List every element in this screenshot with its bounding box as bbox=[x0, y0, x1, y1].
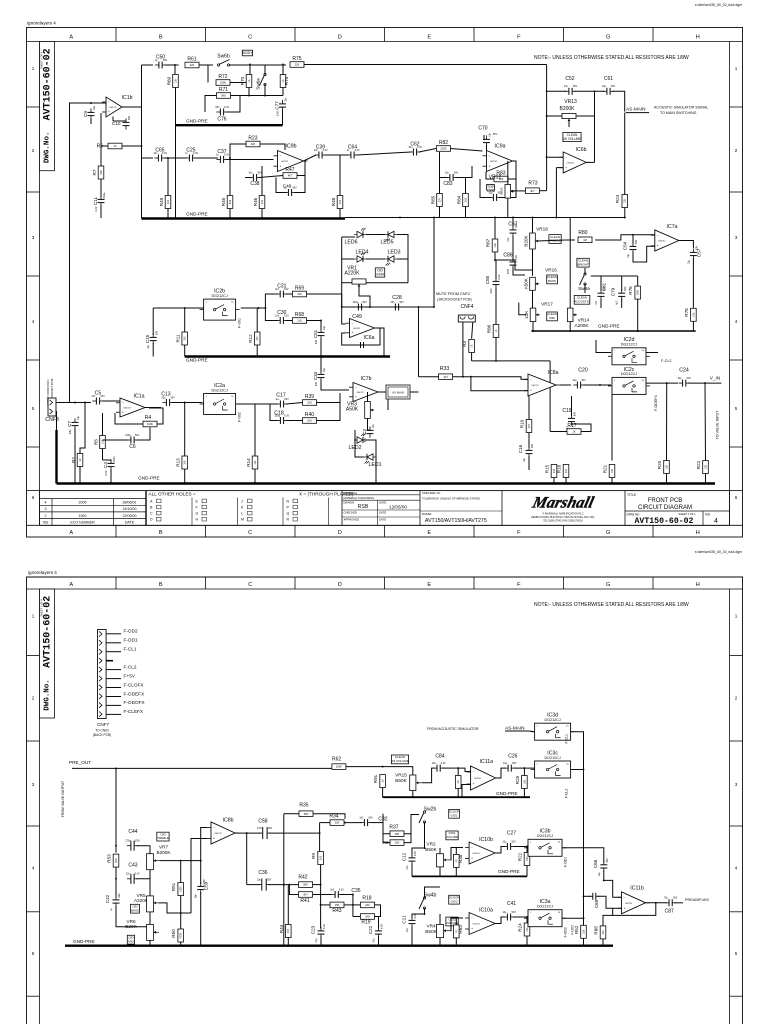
wire C4 bot bbox=[110, 469, 112, 484]
potentiometer VR2 bbox=[437, 854, 451, 867]
diode LED4 bbox=[354, 253, 366, 263]
svg-text:C13: C13 bbox=[161, 392, 170, 398]
wire IC10b out bbox=[495, 847, 505, 854]
wire VR4 bot bbox=[439, 938, 441, 946]
svg-text:2005: 2005 bbox=[79, 501, 87, 505]
svg-text:Sw4b: Sw4b bbox=[424, 893, 437, 899]
wire C36 left bbox=[247, 884, 260, 886]
svg-text:3: 3 bbox=[32, 235, 35, 240]
capacitor C62 bbox=[408, 141, 422, 155]
svg-text:TO MAIN SWITCHING: TO MAIN SWITCHING bbox=[660, 111, 697, 115]
svg-text:R7: R7 bbox=[92, 169, 97, 175]
wire R91 down bbox=[382, 788, 384, 798]
wire IC11a plus wire bbox=[462, 785, 471, 798]
svg-text:R15: R15 bbox=[545, 464, 550, 473]
svg-text:IC6a: IC6a bbox=[364, 335, 375, 341]
svg-text:C49: C49 bbox=[352, 314, 362, 320]
connector CNF4 bbox=[458, 315, 475, 322]
capacitor C37 bbox=[216, 149, 229, 163]
analog switch IC3b bbox=[524, 829, 566, 857]
op-amp IC6b bbox=[559, 152, 590, 173]
svg-text:DWG.No.: DWG.No. bbox=[44, 679, 52, 711]
wire VR2 top bbox=[439, 848, 441, 854]
svg-text:D: D bbox=[338, 530, 342, 536]
svg-text:68n: 68n bbox=[195, 893, 198, 898]
wire R72 right bbox=[230, 82, 250, 84]
svg-text:10K: 10K bbox=[526, 856, 529, 861]
capacitor C26 bbox=[503, 762, 517, 772]
resistor R11 bbox=[176, 332, 188, 345]
svg-text:1K: 1K bbox=[248, 79, 251, 82]
svg-text:4: 4 bbox=[45, 501, 47, 505]
ground bus GND-PRE p2 row3 bbox=[383, 796, 530, 798]
svg-text:R2: R2 bbox=[71, 457, 76, 463]
resistor R22p2 bbox=[524, 853, 530, 866]
svg-text:DG212CJ: DG212CJ bbox=[621, 372, 637, 376]
wire R48 bot bbox=[339, 209, 341, 219]
wire Sw6a bot bbox=[264, 85, 266, 96]
potentiometer VR1 bbox=[352, 279, 366, 288]
capacitor C15 bbox=[145, 330, 158, 349]
svg-text:PREAMP-MIX: PREAMP-MIX bbox=[685, 898, 710, 902]
svg-text:LED6: LED6 bbox=[345, 240, 358, 246]
svg-text:5K6: 5K6 bbox=[100, 170, 103, 175]
diode LED1 bbox=[364, 454, 376, 464]
capacitor C67 bbox=[507, 223, 518, 242]
page2 outer frame bbox=[27, 577, 743, 1024]
svg-text:C6: C6 bbox=[129, 444, 136, 450]
wire VR6 bot bbox=[149, 940, 151, 945]
svg-text:63V: 63V bbox=[624, 286, 627, 291]
svg-text:10µ: 10µ bbox=[257, 878, 262, 881]
svg-text:AS-MAIN: AS-MAIN bbox=[626, 106, 646, 111]
svg-text:3n3: 3n3 bbox=[359, 816, 364, 819]
svg-text:LED3: LED3 bbox=[388, 250, 401, 256]
junction C69 tap bbox=[583, 895, 585, 897]
junction R43 left bbox=[320, 904, 322, 906]
wire IC11b out bbox=[646, 902, 667, 904]
wire CNF3 to IC1b input bbox=[70, 103, 92, 403]
svg-text:2: 2 bbox=[32, 148, 35, 153]
resistor R23 bbox=[246, 136, 260, 147]
svg-text:10n: 10n bbox=[314, 149, 319, 152]
wire C36 right bbox=[268, 884, 299, 886]
wire C15 top bbox=[152, 308, 154, 335]
wire R68 right bbox=[307, 320, 322, 322]
svg-text:−: − bbox=[352, 321, 354, 325]
wire R71 to nodes bbox=[231, 95, 284, 97]
wire Sw6a links bbox=[264, 65, 266, 75]
resistor R21 bbox=[609, 465, 615, 478]
svg-text:VOLUME: VOLUME bbox=[446, 835, 459, 839]
junction R61 left bbox=[174, 64, 176, 66]
svg-text:DG212CJ: DG212CJ bbox=[537, 834, 553, 838]
svg-text:10n: 10n bbox=[275, 314, 280, 317]
capacitor C30 bbox=[275, 310, 289, 324]
svg-text:DATE: DATE bbox=[379, 511, 386, 515]
ground bus GND-PRE mid bbox=[185, 355, 390, 357]
svg-text:E: E bbox=[427, 582, 431, 588]
svg-text:C36: C36 bbox=[258, 870, 267, 876]
wire C24 to VIN bbox=[688, 382, 721, 384]
switch Sw4b bbox=[419, 897, 426, 909]
svg-text:TEL:01908 375411 FAX:01908 37: TEL:01908 375411 FAX:01908 376118 bbox=[543, 519, 583, 522]
wire C12 branch bbox=[412, 848, 425, 856]
svg-text:D: D bbox=[338, 582, 342, 588]
svg-text:10µ: 10µ bbox=[503, 762, 508, 765]
svg-text:LM4742: LM4742 bbox=[472, 924, 480, 926]
svg-text:3: 3 bbox=[735, 782, 738, 787]
svg-text:IC1a: IC1a bbox=[134, 394, 145, 400]
wire R7 column bbox=[100, 146, 102, 166]
svg-text:22K: 22K bbox=[295, 63, 300, 67]
svg-text:R62: R62 bbox=[332, 757, 341, 763]
capacitor C33 bbox=[313, 367, 326, 386]
wire CNF4 pin1 bbox=[462, 322, 464, 377]
wire IC3b out bbox=[562, 847, 584, 849]
svg-text:DATE: DATE bbox=[379, 518, 386, 522]
junction x434 bot bbox=[433, 306, 435, 308]
wire fb vertical x283 bbox=[283, 814, 285, 946]
svg-text:27K: 27K bbox=[528, 423, 531, 428]
junction R71 node2 bbox=[264, 95, 266, 97]
svg-text:1M: 1M bbox=[382, 779, 385, 782]
svg-text:63V: 63V bbox=[284, 288, 289, 291]
wire IC3c out bbox=[571, 769, 584, 771]
wire R72 left bbox=[207, 65, 209, 83]
svg-text:12K: 12K bbox=[335, 821, 340, 825]
wire trunk down bbox=[546, 65, 548, 191]
potentiometer VR12 bbox=[505, 185, 515, 199]
op-amp IC8b bbox=[207, 822, 239, 844]
ground bus GND-PRE page2 main bbox=[65, 945, 613, 947]
svg-text:1K5: 1K5 bbox=[307, 419, 312, 423]
wire R7 to C11 bbox=[100, 179, 102, 197]
junction IC11b fb bbox=[655, 902, 657, 904]
resistor R10 bbox=[526, 420, 532, 433]
svg-text:R82: R82 bbox=[439, 140, 448, 146]
wire x116 R53 bbox=[115, 846, 117, 853]
capacitor C42 bbox=[110, 893, 121, 911]
svg-text:G: G bbox=[606, 582, 610, 588]
svg-text:F: F bbox=[517, 530, 521, 536]
svg-text:AS VOLUME: AS VOLUME bbox=[391, 759, 409, 763]
svg-text:4K7: 4K7 bbox=[530, 189, 535, 193]
wire R6 left bbox=[101, 145, 108, 147]
svg-text:F-OD1: F-OD1 bbox=[564, 857, 568, 867]
label CLEAN BASS box bbox=[547, 275, 558, 284]
wire C26 right bbox=[514, 768, 535, 769]
wire R16 bot bbox=[565, 478, 567, 484]
wire sw8a top bbox=[584, 268, 586, 274]
spec column bbox=[420, 491, 502, 526]
page2 inner frame sides bbox=[39, 589, 41, 1024]
svg-text:4: 4 bbox=[714, 518, 718, 525]
svg-text:50V: 50V bbox=[606, 858, 609, 863]
wire C58 right bbox=[269, 832, 320, 834]
svg-text:DENBIGH ROAD, BLETCHLEY, MILTO: DENBIGH ROAD, BLETCHLEY, MILTON KEYNES, … bbox=[531, 516, 595, 519]
wire C31-R69 bbox=[286, 293, 293, 295]
wire R14 bot bbox=[254, 469, 256, 484]
page1 bottom letter strip bbox=[27, 524, 743, 526]
svg-text:100K: 100K bbox=[336, 765, 342, 769]
junction IC3b out bbox=[583, 847, 585, 849]
label SCOOP OD2 box bbox=[449, 895, 460, 904]
svg-text:VR14: VR14 bbox=[578, 318, 590, 323]
ground bus GND-PRE upper-left bbox=[142, 217, 346, 219]
svg-text:50V: 50V bbox=[581, 379, 586, 382]
material column bbox=[342, 491, 420, 526]
svg-text:1K: 1K bbox=[495, 329, 498, 332]
wire R52 bot bbox=[583, 938, 585, 945]
op-amp IC7b bbox=[349, 383, 382, 402]
svg-text:4K7: 4K7 bbox=[443, 375, 448, 379]
connector CNF3 bbox=[45, 398, 59, 423]
wire R48 top bbox=[339, 155, 341, 196]
wire IC6a out bbox=[375, 328, 385, 357]
svg-text:−: − bbox=[473, 770, 475, 774]
svg-text:2K2: 2K2 bbox=[339, 199, 342, 204]
wire to IC8a plus bbox=[471, 377, 528, 391]
diode LED6 bbox=[354, 228, 366, 238]
wire R20 bot bbox=[666, 474, 668, 484]
wire IC3a out bbox=[562, 917, 584, 919]
wire x418 col bbox=[418, 307, 420, 377]
wire R85 top bbox=[439, 152, 441, 194]
svg-text:Sw2b: Sw2b bbox=[424, 807, 437, 813]
svg-text:C86: C86 bbox=[503, 253, 512, 259]
svg-text:5: 5 bbox=[32, 406, 35, 411]
label CLEAN BRIGHT box bbox=[577, 258, 589, 267]
svg-text:C48: C48 bbox=[283, 184, 292, 189]
svg-text:10K: 10K bbox=[256, 336, 259, 341]
wire IC8a out bbox=[560, 384, 571, 386]
wire VR16 bot bbox=[532, 290, 534, 308]
wire C70 col bbox=[483, 135, 485, 140]
svg-text:VR18: VR18 bbox=[536, 227, 548, 232]
analog switch IC2b bbox=[200, 289, 240, 321]
wire R74 bot bbox=[282, 88, 284, 96]
svg-text:C26: C26 bbox=[508, 754, 517, 760]
wire C39-C64 bbox=[325, 154, 349, 156]
svg-text:6.3V: 6.3V bbox=[105, 470, 108, 475]
junction C21 gnd bbox=[411, 945, 413, 947]
wire C77 bot bbox=[282, 110, 284, 126]
svg-text:+: + bbox=[352, 331, 354, 335]
svg-text:47n: 47n bbox=[595, 300, 598, 305]
svg-text:LM4742: LM4742 bbox=[625, 903, 633, 905]
svg-text:50V: 50V bbox=[573, 85, 578, 88]
svg-text:R35: R35 bbox=[299, 803, 308, 809]
junction IC3a out bbox=[583, 917, 585, 919]
wire R18 left bbox=[353, 904, 360, 906]
junction R20 node bbox=[666, 382, 668, 384]
wire C13-IC2a bbox=[172, 402, 203, 404]
svg-text:−: − bbox=[280, 154, 282, 158]
wire C51 bot bbox=[320, 338, 322, 357]
svg-text:SPEC/REF No: SPEC/REF No bbox=[422, 491, 441, 495]
wire sw8a bot bbox=[584, 284, 586, 293]
svg-text:R78: R78 bbox=[684, 308, 689, 317]
wire y307 to IC6a bbox=[342, 307, 346, 324]
wire C21 branch bbox=[412, 914, 425, 918]
wire tone out up bbox=[181, 860, 201, 862]
wire IC1a out bbox=[145, 407, 161, 409]
op-amp IC10a bbox=[465, 913, 499, 935]
wire R12 top bbox=[256, 308, 258, 332]
wire sw2b bot bbox=[424, 822, 426, 848]
svg-text:70µ: 70µ bbox=[664, 897, 669, 900]
svg-text:LM4742: LM4742 bbox=[567, 162, 575, 164]
svg-text:63V: 63V bbox=[292, 186, 297, 189]
junction CNF3 node bbox=[84, 402, 86, 404]
wire R5 top bbox=[102, 413, 104, 436]
junction VR14 bus bbox=[569, 330, 571, 332]
wire VR17 wiper bbox=[519, 303, 526, 315]
wire C69 left bbox=[584, 895, 592, 897]
svg-text:(JACKSOCKET PCB): (JACKSOCKET PCB) bbox=[437, 298, 472, 302]
svg-text:20K: 20K bbox=[395, 841, 400, 845]
wire R21 bot bbox=[611, 478, 613, 484]
wire R85 bot bbox=[439, 207, 441, 218]
wire R13 bot bbox=[184, 469, 186, 484]
svg-text:1920: 1920 bbox=[79, 514, 87, 518]
svg-text:F-CL2: F-CL2 bbox=[565, 789, 569, 799]
resistor R12 bbox=[248, 332, 260, 345]
capacitor C86 bbox=[507, 255, 518, 275]
resistor R2 bbox=[71, 454, 83, 467]
svg-text:R86: R86 bbox=[487, 324, 492, 333]
junction node B1 bbox=[249, 64, 251, 66]
capacitor C20 bbox=[572, 379, 586, 389]
wire valve input drop bbox=[115, 768, 117, 845]
svg-text:4: 4 bbox=[32, 865, 35, 870]
wire VR13 right bbox=[576, 115, 595, 117]
wire C86 bot bbox=[513, 268, 525, 276]
wire R25 down bbox=[523, 789, 525, 798]
svg-text:LM4742: LM4742 bbox=[474, 778, 482, 780]
svg-text:6.3V: 6.3V bbox=[339, 888, 344, 891]
resistor R49 bbox=[159, 196, 171, 209]
wire x594 vertical bbox=[594, 91, 596, 162]
svg-text:LM4742: LM4742 bbox=[281, 161, 289, 163]
svg-text:AS-MAIN: AS-MAIN bbox=[505, 725, 525, 730]
svg-text:50V: 50V bbox=[128, 115, 131, 120]
wire R78 bot bbox=[692, 321, 694, 331]
wire sw2b left bbox=[411, 815, 419, 834]
svg-text:C85: C85 bbox=[485, 275, 490, 284]
capacitor C17 bbox=[275, 398, 289, 408]
svg-text:R51: R51 bbox=[171, 882, 176, 891]
wire Sw6b to R75 bbox=[229, 64, 286, 66]
svg-text:LM4742: LM4742 bbox=[531, 385, 539, 387]
svg-text:IC6b: IC6b bbox=[576, 147, 587, 153]
junction R51 tap bbox=[180, 860, 182, 862]
svg-text:n47: n47 bbox=[91, 395, 96, 398]
wire R15 bot bbox=[553, 478, 555, 484]
capacitor C23 bbox=[315, 924, 326, 943]
svg-text:+: + bbox=[657, 244, 659, 248]
junction sw2b node bbox=[424, 847, 426, 849]
svg-text:MATERIAL THICKNESS: MATERIAL THICKNESS bbox=[344, 496, 375, 500]
svg-text:C21: C21 bbox=[402, 915, 407, 924]
wire led4-led3 bbox=[366, 258, 385, 260]
svg-text:CNF4: CNF4 bbox=[460, 304, 473, 310]
junction IC1b input bbox=[90, 102, 92, 104]
wire led3 right bbox=[397, 259, 408, 283]
svg-text:F-002: F-002 bbox=[238, 412, 242, 422]
wire IC11a out bbox=[496, 768, 506, 778]
resistor R38 bbox=[454, 854, 460, 867]
svg-text:MUTE FROM CNF2: MUTE FROM CNF2 bbox=[436, 292, 470, 296]
svg-text:10K: 10K bbox=[526, 927, 529, 932]
resistor R53 bbox=[113, 854, 119, 867]
wire C6 right bbox=[137, 428, 151, 441]
resistor R24 bbox=[622, 195, 628, 208]
capacitor C81 bbox=[595, 286, 606, 305]
junction C20 node bbox=[599, 384, 601, 386]
svg-text:F-ODEFX: F-ODEFX bbox=[654, 395, 658, 411]
wire C6 loop bbox=[103, 439, 129, 441]
resistor R25 bbox=[522, 776, 528, 789]
junction VIN node bbox=[704, 382, 706, 384]
junction C30C31 bbox=[264, 307, 266, 309]
svg-text:10n: 10n bbox=[248, 171, 253, 174]
label O/D GAIN box bbox=[375, 268, 384, 277]
label O/D TREBLE box bbox=[157, 832, 169, 841]
resistor R15 bbox=[551, 465, 557, 478]
wire sw4b bot bbox=[424, 908, 426, 914]
svg-text:C51: C51 bbox=[313, 329, 318, 338]
svg-text:F-CL1: F-CL1 bbox=[124, 647, 137, 652]
svg-text:A: A bbox=[69, 582, 73, 588]
wire VR13 wiper bbox=[568, 121, 570, 127]
junction x400 top bbox=[399, 217, 401, 219]
svg-text:C77: C77 bbox=[275, 101, 280, 110]
wire R74 top bbox=[282, 65, 284, 75]
svg-text:R40: R40 bbox=[305, 412, 314, 418]
capacitor C69 bbox=[589, 893, 600, 900]
wire R35 row bbox=[284, 813, 299, 815]
junction x418 top bbox=[418, 306, 420, 308]
capacitor C70 bbox=[483, 132, 492, 146]
svg-text:R34: R34 bbox=[329, 814, 338, 820]
title block outline bbox=[40, 491, 730, 526]
svg-text:3: 3 bbox=[45, 507, 47, 511]
svg-text:R19: R19 bbox=[361, 920, 370, 926]
wire C33 top bbox=[320, 357, 322, 373]
wire R13 top bbox=[184, 403, 186, 457]
svg-text:V_IN: V_IN bbox=[710, 376, 720, 381]
wire CNF7 pin 1 bbox=[106, 633, 121, 635]
svg-text:R45: R45 bbox=[221, 197, 226, 206]
wire C38 to R47 bbox=[259, 176, 283, 178]
svg-text:+: + bbox=[122, 410, 124, 414]
wire R39 right bbox=[317, 393, 341, 403]
analog switch IC2c bbox=[608, 367, 650, 395]
wire IC8b out bbox=[235, 832, 261, 834]
wire IC2a out bbox=[237, 403, 278, 405]
svg-text:470R: 470R bbox=[180, 932, 183, 938]
svg-text:C28: C28 bbox=[392, 295, 402, 301]
junction R33 node2 bbox=[470, 376, 472, 378]
resistor R24p2 bbox=[524, 923, 530, 936]
junction x319 out bbox=[319, 832, 321, 834]
wire C64-C62 bbox=[357, 152, 412, 155]
svg-text:R3: R3 bbox=[462, 341, 467, 347]
resistor R75 bbox=[290, 56, 304, 67]
svg-text:R70: R70 bbox=[240, 76, 245, 85]
